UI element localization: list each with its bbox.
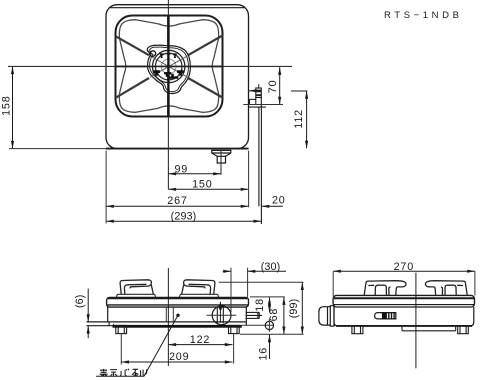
ネ (132, 369, 139, 376)
dim (99) (288, 282, 302, 334)
front view hose inlet circle (212, 306, 231, 325)
front view grate foot right base plate (180, 294, 219, 297)
front view bottom reference through hose circle (242, 324, 274, 326)
dim 99 (168, 163, 221, 175)
label 表示パネル (display panel) drawn glyphs (100, 369, 147, 376)
svg-text:150: 150 (192, 179, 212, 191)
dim 16 (258, 335, 270, 361)
hose pipe hidden lines through circle (217, 307, 223, 323)
(30) extension lines (231, 268, 248, 312)
svg-text:267: 267 (167, 195, 187, 207)
表 (100, 369, 108, 376)
dim 20 (262, 195, 286, 207)
burner flame ports bottom (153, 70, 183, 77)
dim 270 (333, 261, 475, 273)
svg-text:(30): (30) (261, 261, 281, 273)
svg-text:(6): (6) (74, 295, 86, 309)
burner cap ring outer (153, 50, 185, 82)
dim (293) (106, 211, 261, 223)
front view centerline (167, 268, 169, 366)
dim 112 (293, 91, 307, 148)
front view grate foot right (182, 280, 215, 295)
gas valve below body (212, 150, 231, 163)
side view ignition slider (375, 313, 396, 319)
hose axis line through circle (207, 314, 237, 316)
grate outer ring (116, 16, 223, 117)
front view left foot (116, 325, 127, 333)
gas elbow outline (249, 98, 266, 108)
svg-text:16: 16 (258, 347, 270, 361)
side view hose coupling on left (319, 306, 334, 326)
burner body outer blob (147, 45, 190, 93)
burner cap ring inner (155, 53, 182, 80)
grate finger bar bottom-right (188, 78, 223, 98)
burner thin radial lines to center (150, 56, 188, 77)
extension line right foot center (233, 334, 235, 364)
extension line body right edge down (248, 151, 250, 208)
dim 267 (106, 195, 248, 207)
gas hose lines going down (259, 107, 262, 224)
svg-text:99: 99 (174, 163, 188, 175)
front view bottom plate left notch (108, 322, 110, 326)
extension line feet bottom right (240, 333, 304, 335)
front view dark base band (113, 325, 242, 328)
front view bottom plate line left segment (87, 325, 115, 327)
side view top plate band (333, 295, 474, 307)
dim (6) (74, 289, 88, 339)
igniter electrode (149, 50, 157, 57)
dim 150 (168, 179, 248, 191)
nipple center leader with arrow (249, 90, 308, 92)
svg-text:270: 270 (394, 261, 414, 273)
dim 122 (168, 334, 232, 346)
svg-text:20: 20 (272, 195, 286, 207)
leader end dot (176, 314, 179, 317)
dim 68 (268, 297, 284, 334)
valve stem hidden line with arrow (219, 302, 221, 323)
side view right foot (458, 326, 469, 334)
示 (110, 370, 117, 377)
svg-text:(293): (293) (171, 211, 197, 223)
top view burner horizontal centerline (8, 65, 292, 67)
top view body outline (106, 5, 249, 149)
label underline (96, 375, 144, 377)
grate finger bar top-right (188, 36, 223, 56)
side view grate feet right group (425, 281, 467, 295)
side view left foot (352, 326, 363, 334)
ル (140, 369, 147, 376)
burner center small circle (161, 59, 176, 74)
dim 70 (267, 67, 280, 104)
svg-text:70: 70 (267, 80, 279, 94)
crosshair over burner: vertical thick bar (167, 16, 169, 117)
front view grate foot left base plate (117, 294, 156, 297)
front view display panel seam lines (166, 307, 173, 322)
dim (30) (223, 261, 286, 273)
elbow bottom reference line (243, 104, 283, 106)
side view bottom recess plate (402, 326, 456, 331)
svg-text:209: 209 (169, 351, 189, 363)
top view burner vertical centerline (167, 0, 169, 190)
title model number RTS-1NDB (384, 10, 463, 21)
front view right foot (229, 325, 240, 333)
front view grate foot left (120, 280, 153, 295)
extension line left foot center (120, 334, 122, 365)
burner thermocouple mark (167, 74, 178, 79)
パ (120, 369, 129, 376)
burner flame ports top (160, 53, 177, 58)
svg-text:(99): (99) (288, 299, 300, 319)
svg-text:18: 18 (254, 298, 266, 312)
leader line to display panel (144, 315, 178, 376)
side view main body (334, 307, 474, 326)
svg-text:112: 112 (293, 109, 305, 129)
extension line left of body bottom (9, 148, 106, 150)
front view main body (87, 307, 247, 325)
gas nipple on right side (256, 84, 261, 97)
grate inner scalloped ring (119, 20, 218, 113)
front view gas outlet pipe right (246, 312, 262, 318)
burner body inner outline (150, 47, 189, 92)
svg-text:122: 122 (190, 334, 210, 346)
hose circle below body (265, 321, 273, 329)
dim 18 (254, 297, 270, 312)
grate finger bar top-left (116, 36, 150, 55)
dim 209 (121, 351, 232, 363)
extension line grate top right (219, 281, 304, 283)
dim 158 (1, 66, 13, 148)
svg-text:158: 158 (1, 95, 13, 115)
valve centerline (220, 149, 222, 175)
svg-text:RTS−1NDB: RTS−1NDB (384, 10, 463, 21)
side view bottom thick edge (336, 325, 472, 327)
crosshair over burner: horizontal line (116, 65, 223, 67)
front view top plate band (107, 297, 249, 307)
extension line body left edge down (105, 151, 107, 224)
side view grate feet left group (364, 281, 406, 295)
270 extension lines (333, 271, 475, 296)
side view centerline (415, 273, 417, 369)
grate finger bar bottom-left (116, 78, 150, 98)
extension line rim top right (250, 296, 285, 298)
